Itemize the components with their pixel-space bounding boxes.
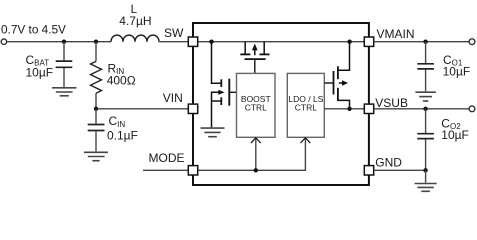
ground internal Q1 source xyxy=(201,128,225,137)
wire VSUB output xyxy=(374,108,470,110)
ground CO1 xyxy=(415,92,435,101)
ground CBAT xyxy=(52,88,77,96)
svg-text:SW: SW xyxy=(164,26,184,40)
wire LDO to VSUB pin xyxy=(324,108,364,110)
junction Q3 source to VSUB xyxy=(347,107,351,111)
capacitor CBAT xyxy=(56,42,73,87)
transistor Q2 rectifier switch xyxy=(240,42,269,74)
wire input to inductor xyxy=(7,41,111,43)
wire MODE internal xyxy=(198,139,306,171)
wire arrow to BOOST CTRL xyxy=(255,139,257,171)
wire VMAIN output xyxy=(374,41,470,43)
wire RIN node to VIN pin xyxy=(96,108,188,110)
junction MODE branch xyxy=(254,168,258,172)
pin GND xyxy=(364,166,373,175)
svg-text:VMAIN: VMAIN xyxy=(377,27,415,41)
label CBAT 10uF xyxy=(26,53,54,80)
junction SW rail to Q1 xyxy=(209,40,213,44)
arrowhead into LDO CTRL xyxy=(301,138,311,143)
junction CIN node xyxy=(94,107,98,111)
pin VSUB xyxy=(364,104,373,113)
svg-text:400Ω: 400Ω xyxy=(107,73,136,87)
svg-text:CTRL: CTRL xyxy=(245,102,267,112)
svg-text:MODE: MODE xyxy=(149,151,185,165)
svg-text:CIN: CIN xyxy=(109,114,126,129)
svg-text:0.1µF: 0.1µF xyxy=(107,128,138,142)
svg-text:GND: GND xyxy=(375,156,402,170)
capacitor CO2 xyxy=(417,109,434,171)
junction RIN node xyxy=(94,40,98,44)
svg-text:10µF: 10µF xyxy=(26,66,54,80)
junction GND CO2 xyxy=(423,168,427,172)
junction CO1 node xyxy=(423,40,427,44)
svg-text:10µF: 10µF xyxy=(443,64,471,78)
ground CO2 xyxy=(415,184,437,192)
label CO1 10uF xyxy=(443,53,471,78)
capacitor CIN xyxy=(88,109,105,152)
wire SW internal rail xyxy=(198,41,365,43)
svg-text:CTRL: CTRL xyxy=(295,102,317,112)
svg-text:4.7µH: 4.7µH xyxy=(119,14,151,28)
transistor Q3 load switch xyxy=(324,42,349,109)
wire MODE input xyxy=(143,169,188,171)
capacitor CO1 xyxy=(417,42,434,92)
pin VIN xyxy=(188,104,197,113)
pin VMAIN xyxy=(364,37,373,46)
pin MODE xyxy=(188,166,197,175)
node VSUB output terminal xyxy=(469,106,475,112)
IC U1 boundary xyxy=(193,23,369,185)
pin SW xyxy=(188,37,197,46)
block LDO / LS CTRL xyxy=(287,73,324,137)
ground CIN xyxy=(84,152,108,160)
wire CO2 to ground xyxy=(425,170,427,182)
block BOOST CTRL xyxy=(237,73,276,137)
svg-text:10µF: 10µF xyxy=(441,128,469,142)
node VMAIN output terminal xyxy=(469,39,475,45)
wire GND pin to CO2 xyxy=(374,169,426,171)
wire inductor to SW pin xyxy=(159,41,188,43)
svg-text:VIN: VIN xyxy=(163,91,183,105)
svg-text:0.7V to 4.5V: 0.7V to 4.5V xyxy=(1,22,66,36)
junction CO2 node xyxy=(423,107,427,111)
node VBAT input terminal xyxy=(1,39,6,44)
inductor L xyxy=(111,35,159,42)
svg-text:VSUB: VSUB xyxy=(375,96,408,110)
transistor Q1 low-side switch xyxy=(212,42,237,128)
resistor RIN xyxy=(91,42,102,109)
label RIN 400ohm xyxy=(107,61,136,87)
arrowhead into BOOST CTRL xyxy=(251,138,261,143)
label CIN 0.1uF xyxy=(107,114,138,142)
junction SW rail to Q3 xyxy=(347,40,351,44)
label CO2 10uF xyxy=(441,116,469,142)
junction CBAT node xyxy=(62,40,66,44)
